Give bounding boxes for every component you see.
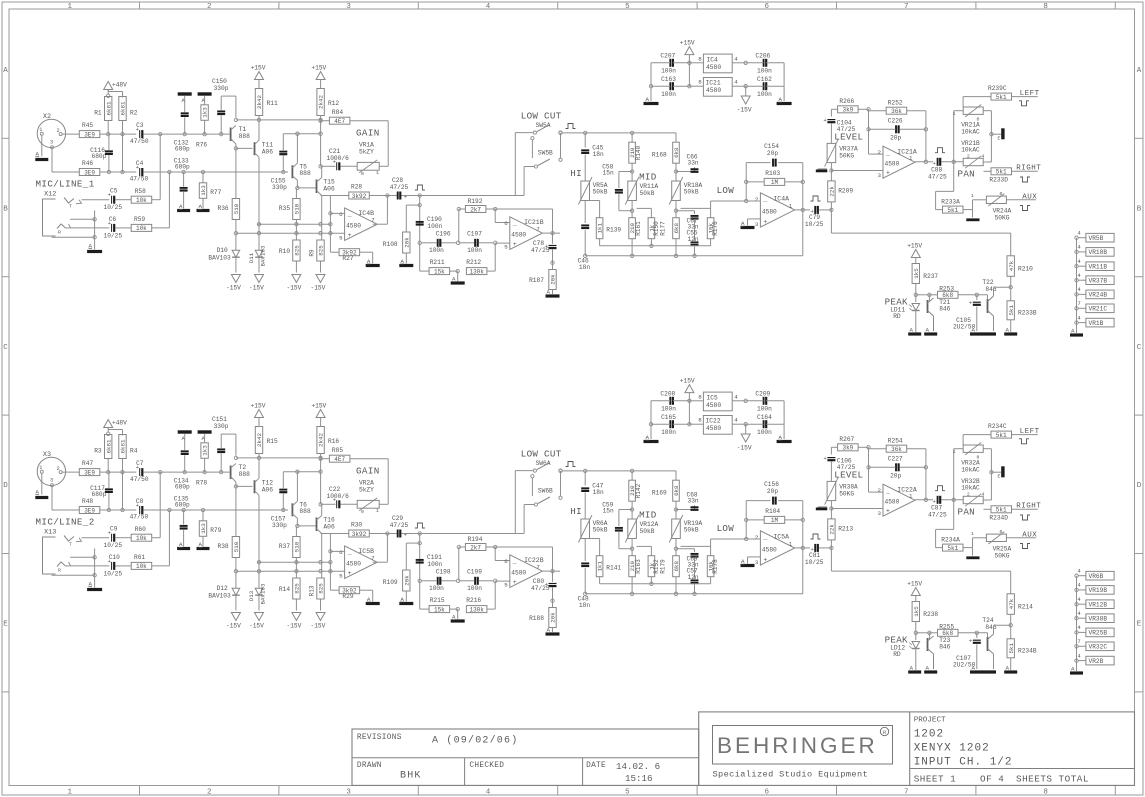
svg-text:4580: 4580 xyxy=(706,87,721,94)
svg-text:+: + xyxy=(348,570,352,577)
capacitor C46 18n xyxy=(581,224,589,226)
svg-text:HI: HI xyxy=(570,506,582,517)
svg-text:C: C xyxy=(3,344,8,352)
svg-text:IC21A: IC21A xyxy=(897,149,917,156)
svg-text:LOW: LOW xyxy=(717,523,735,534)
capacitor C9 10/25 xyxy=(111,534,113,542)
output riser xyxy=(925,111,927,162)
svg-text:2k7: 2k7 xyxy=(470,206,481,213)
wire MID pot bottom xyxy=(631,201,633,218)
IC21B output node xyxy=(542,570,560,572)
resistor R60 10k xyxy=(131,534,152,541)
ground right of supply xyxy=(783,86,785,101)
svg-text:+: + xyxy=(823,455,827,462)
svg-text:18n: 18n xyxy=(593,151,604,158)
T22 collector to mute node xyxy=(993,287,995,296)
wire R12 column down to C21 node xyxy=(320,472,322,505)
svg-text:5k1: 5k1 xyxy=(1008,305,1015,316)
svg-text:R: R xyxy=(58,568,61,574)
svg-text:VR12B: VR12B xyxy=(1089,602,1108,609)
svg-text:C80: C80 xyxy=(533,578,544,585)
svg-text:R12: R12 xyxy=(328,100,339,107)
svg-text:R239C: R239C xyxy=(988,85,1007,92)
svg-text:RIGHT: RIGHT xyxy=(1016,503,1041,511)
-15V under D11 xyxy=(255,613,264,621)
svg-text:7: 7 xyxy=(536,564,540,571)
wire R45 to node xyxy=(100,471,137,473)
svg-text:R139: R139 xyxy=(606,227,621,234)
wire C3 to T1 base xyxy=(144,471,230,473)
capacitor C29 47/25 xyxy=(397,530,399,538)
row ticks and letters left/right xyxy=(2,137,9,139)
wire riser to SW5A xyxy=(514,133,516,196)
wire C28 to filter node xyxy=(402,533,420,535)
pan right rail xyxy=(990,449,992,500)
svg-text:10k: 10k xyxy=(136,563,147,570)
wire jack tip to C5 xyxy=(82,537,110,539)
LOW wiper to R176 xyxy=(681,207,711,209)
svg-text:+: + xyxy=(969,300,973,307)
svg-text:R109: R109 xyxy=(383,579,398,586)
capacitor C107 2u2/50 xyxy=(976,633,978,638)
svg-text:2k42: 2k42 xyxy=(318,95,325,109)
svg-text:R1: R1 xyxy=(94,110,102,117)
svg-text:R179: R179 xyxy=(660,559,667,574)
svg-text:R9: R9 xyxy=(309,249,316,257)
svg-text:4580: 4580 xyxy=(346,223,361,230)
wire to IC21B pin5 xyxy=(495,242,510,244)
svg-text:33n: 33n xyxy=(688,498,699,505)
svg-text:R78: R78 xyxy=(196,480,207,487)
svg-text:C163: C163 xyxy=(661,76,676,83)
wire C6-R59 xyxy=(116,565,132,567)
svg-text:47/50: 47/50 xyxy=(130,514,149,521)
ground under LED xyxy=(908,670,921,673)
svg-text:R108: R108 xyxy=(383,241,398,248)
VR connector bus xyxy=(1076,576,1078,671)
wire C79 to level node xyxy=(819,547,831,549)
svg-text:47/50: 47/50 xyxy=(130,476,149,483)
svg-text:+15V: +15V xyxy=(311,65,326,72)
svg-text:R84: R84 xyxy=(332,109,343,116)
svg-text:R13: R13 xyxy=(309,585,316,596)
capacitor C132 680p xyxy=(181,112,189,114)
svg-text:4: 4 xyxy=(1078,625,1081,631)
svg-text:VR1A: VR1A xyxy=(359,142,374,149)
connector box VR19B pin 4 xyxy=(1075,588,1078,591)
svg-text:3: 3 xyxy=(878,172,882,179)
registered trademark symbol xyxy=(880,727,888,735)
svg-text:SW5B: SW5B xyxy=(538,150,553,157)
svg-text:4: 4 xyxy=(486,789,491,797)
resistor R108 20k xyxy=(403,232,410,253)
IC21A output xyxy=(915,161,933,163)
R28 row from T15 emitter xyxy=(321,195,349,197)
pan pot VR21A 10kAC xyxy=(963,107,983,114)
svg-text:IC4A: IC4A xyxy=(773,195,789,202)
svg-text:D12: D12 xyxy=(217,585,228,592)
EQ bottom bus to IC4A output riser xyxy=(585,593,803,595)
svg-text:510: 510 xyxy=(294,541,301,552)
svg-text:7: 7 xyxy=(371,555,375,562)
svg-text:1k5: 1k5 xyxy=(913,268,920,279)
svg-text:0: 0 xyxy=(361,509,364,515)
svg-text:R252: R252 xyxy=(888,100,903,107)
MID wiper to R150 xyxy=(637,545,652,547)
wire R176 to lower bus xyxy=(710,239,712,246)
capacitor C133 680p xyxy=(180,187,188,189)
svg-text:+: + xyxy=(823,117,827,124)
svg-text:R210: R210 xyxy=(1018,266,1033,273)
op-amp IC21A 4580 xyxy=(883,146,915,178)
svg-text:+48V: +48V xyxy=(112,420,127,427)
wire R162 to bottom bus xyxy=(675,239,677,256)
ground under C105 xyxy=(970,332,996,335)
capacitor C206 100n xyxy=(763,59,765,67)
svg-text:HI: HI xyxy=(570,168,582,179)
svg-text:4: 4 xyxy=(734,393,738,400)
capacitor C135 680p xyxy=(180,525,188,527)
resistor R234D 5k1 to RIGHT xyxy=(984,508,991,510)
svg-text:+: + xyxy=(404,194,407,201)
svg-text:10k: 10k xyxy=(136,225,147,232)
svg-text:6: 6 xyxy=(504,220,508,227)
svg-text:VR11B: VR11B xyxy=(1089,264,1108,271)
wire filter node to low-cut riser xyxy=(420,533,524,535)
svg-text:50kB: 50kB xyxy=(640,528,655,535)
svg-text:888: 888 xyxy=(299,170,311,177)
svg-text:330p: 330p xyxy=(214,85,229,92)
wire R36 bottom to bus xyxy=(235,220,237,234)
svg-text:888: 888 xyxy=(239,133,251,140)
wire R266 right to pin2 riser xyxy=(858,108,868,110)
wire R176 to lower bus xyxy=(710,577,712,584)
svg-text:4: 4 xyxy=(486,3,491,11)
svg-text:B: B xyxy=(1137,205,1142,213)
resistor R9 825 xyxy=(317,240,324,261)
svg-text:4: 4 xyxy=(1078,287,1081,293)
capacitor C45 18n xyxy=(584,133,586,148)
svg-text:+: + xyxy=(969,638,973,645)
wire C4 to T5 base xyxy=(144,171,289,173)
wire IC4B output up to R28 node xyxy=(373,561,388,563)
capacitor C3 47/50 xyxy=(139,130,141,138)
connector box VR2B pin 4 xyxy=(1075,659,1078,662)
svg-text:A: A xyxy=(1137,67,1142,75)
svg-text:5: 5 xyxy=(625,3,630,11)
svg-text:INPUT CH. 1/2: INPUT CH. 1/2 xyxy=(914,757,1013,769)
svg-text:6: 6 xyxy=(339,211,343,218)
svg-text:_: _ xyxy=(347,549,352,556)
diode D12 BAV103 xyxy=(235,571,237,588)
svg-text:+15V: +15V xyxy=(311,403,326,410)
wire IC4A output down to lower return bus xyxy=(802,548,804,594)
svg-text:3: 3 xyxy=(755,221,759,228)
ground at R27 xyxy=(372,590,374,601)
svg-text:R79: R79 xyxy=(210,527,221,534)
svg-text:846: 846 xyxy=(939,306,950,313)
svg-text:6k81: 6k81 xyxy=(105,439,112,453)
+15V supply for op-amps xyxy=(685,47,694,55)
diode D10 BAV103 xyxy=(235,233,237,250)
VR connector bus xyxy=(1076,238,1078,333)
svg-text:C: C xyxy=(1137,344,1142,352)
wire R233A to aux pot xyxy=(963,547,972,549)
svg-text:MIC/LINE_2: MIC/LINE_2 xyxy=(36,516,95,527)
capacitor C104 47/25 xyxy=(827,119,835,121)
title block outline xyxy=(699,712,1135,786)
ground under C133 xyxy=(177,209,190,212)
op-amp IC22A 4580 xyxy=(883,484,915,516)
resistor R163 210 xyxy=(629,556,636,577)
resistor R48 3E9 xyxy=(79,507,100,514)
IC IC22 4580 power pins xyxy=(703,416,732,435)
resistor R188 20k xyxy=(552,588,554,608)
wire jack sleeve to ground column xyxy=(52,236,95,238)
svg-text:50kB: 50kB xyxy=(684,189,699,196)
svg-text:5k1: 5k1 xyxy=(996,432,1007,439)
connector box VR21C pin 7 xyxy=(1075,307,1078,310)
svg-text:1: 1 xyxy=(789,202,793,209)
svg-text:-15V: -15V xyxy=(226,285,241,292)
svg-text:R233B: R233B xyxy=(1018,310,1037,317)
svg-text:22k: 22k xyxy=(829,524,836,535)
wire T5 collector up xyxy=(296,472,298,502)
connector box VR6B pin 4 xyxy=(1075,574,1078,577)
svg-text:B: B xyxy=(3,205,8,213)
svg-text:R140: R140 xyxy=(635,145,642,160)
op-amp IC21B 4580 xyxy=(510,217,543,250)
LEVEL pot VR37A 50KG xyxy=(830,124,832,144)
svg-text:6: 6 xyxy=(504,558,508,565)
resistor R237 1k5 xyxy=(915,258,917,264)
wire R46 to C4 xyxy=(100,171,137,173)
svg-text:-15V: -15V xyxy=(737,445,752,452)
resistor R150 1k xyxy=(648,218,655,239)
svg-text:R27: R27 xyxy=(342,255,353,262)
+48V phantom supply xyxy=(104,420,113,428)
svg-text:5: 5 xyxy=(339,573,343,580)
svg-text:PAN: PAN xyxy=(958,507,975,518)
svg-text:X12: X12 xyxy=(44,190,56,198)
svg-text:5: 5 xyxy=(504,581,508,588)
+15V for peak detector xyxy=(911,250,920,258)
jack ground xyxy=(94,237,96,249)
ground under VR stack xyxy=(1070,671,1083,674)
wire C5-R58 xyxy=(116,199,132,201)
svg-text:R104: R104 xyxy=(765,508,780,515)
aux feed wire xyxy=(953,500,955,530)
svg-text:C206: C206 xyxy=(755,53,770,60)
resistor R38 510 xyxy=(232,537,239,558)
svg-text:5kZY: 5kZY xyxy=(359,487,374,494)
svg-text:4: 4 xyxy=(734,79,738,86)
aux pot ground xyxy=(972,548,974,556)
svg-text:C7: C7 xyxy=(136,460,144,467)
+15V for R12 xyxy=(316,410,325,418)
resistor R162 6k8 xyxy=(673,218,680,239)
wire EQ to IC4A pin2 xyxy=(711,200,747,202)
resistor R84 4E7 xyxy=(329,117,350,124)
resistor R78 1k3 xyxy=(201,443,208,459)
svg-text:R47: R47 xyxy=(82,460,93,467)
resistor R254 36k xyxy=(886,445,907,452)
svg-text:R4: R4 xyxy=(130,448,138,455)
capacitor C48 18n xyxy=(581,562,589,564)
svg-text:888: 888 xyxy=(299,508,311,515)
svg-text:X13: X13 xyxy=(44,528,56,536)
svg-text:330p: 330p xyxy=(272,184,287,191)
capacitor C21 1000/6 xyxy=(336,162,338,170)
wire R28 to C28 node xyxy=(369,533,397,535)
ground at XLR xyxy=(35,158,48,161)
R28 row from T15 emitter xyxy=(321,533,349,535)
svg-text:IC22B: IC22B xyxy=(524,557,544,564)
wire filter node to low-cut riser xyxy=(420,195,524,197)
svg-text:5k1: 5k1 xyxy=(996,169,1007,176)
svg-text:20k: 20k xyxy=(550,274,557,285)
-15V under D10 xyxy=(231,275,240,283)
connector box VR32C pin 7 xyxy=(1075,645,1078,648)
wire R140 to MID pot xyxy=(631,163,633,181)
svg-text:C209: C209 xyxy=(755,391,770,398)
svg-text:R254: R254 xyxy=(888,438,903,445)
wire LOW pot bottom xyxy=(675,201,677,218)
svg-text:A06: A06 xyxy=(262,148,274,155)
svg-text:0: 0 xyxy=(361,171,364,177)
ground left of supply xyxy=(650,86,652,101)
svg-text:4: 4 xyxy=(1078,231,1081,237)
wire C79 to level node xyxy=(819,209,831,211)
svg-text:+: + xyxy=(348,232,352,239)
svg-text:6k8: 6k8 xyxy=(673,485,680,496)
svg-text:680p: 680p xyxy=(175,164,190,171)
capacitor C208 100n xyxy=(669,397,671,405)
svg-text:R15: R15 xyxy=(267,438,278,445)
svg-text:R61: R61 xyxy=(134,554,145,561)
svg-text:47/25: 47/25 xyxy=(928,173,947,180)
svg-text:130k: 130k xyxy=(469,606,484,613)
wire R58 riser to mic hot node xyxy=(152,537,160,539)
wire T15 emitter column xyxy=(321,196,323,241)
pulse symbol at C79 xyxy=(811,534,821,539)
svg-text:+: + xyxy=(763,557,767,564)
pan center tap to ground bar xyxy=(991,471,1001,473)
svg-text:_: _ xyxy=(885,487,890,494)
svg-text:12n: 12n xyxy=(688,574,699,581)
wire pin6 riser xyxy=(494,209,496,223)
HI pot VR6A 50kB xyxy=(584,493,586,520)
svg-text:R176: R176 xyxy=(712,221,719,236)
svg-text:3E9: 3E9 xyxy=(84,469,95,476)
LED LD12 xyxy=(912,642,920,649)
svg-text:MID: MID xyxy=(639,510,657,521)
wire R139 to lower bus xyxy=(599,577,601,584)
wire R150 to lower bus xyxy=(650,577,652,584)
svg-text:R59: R59 xyxy=(134,216,145,223)
resistor R209 22k xyxy=(828,181,835,202)
wire T11 collector to rail xyxy=(258,458,260,478)
wire gain pot to R84 riser xyxy=(379,503,388,505)
svg-text:3E9: 3E9 xyxy=(84,169,95,176)
svg-text:4580: 4580 xyxy=(511,570,526,577)
svg-text:8: 8 xyxy=(1043,3,1048,11)
resistor R61 10k xyxy=(131,562,152,569)
svg-text:+15V: +15V xyxy=(680,40,695,47)
svg-text:VR2B: VR2B xyxy=(1089,658,1104,665)
wire R266 left elbow down xyxy=(831,108,837,110)
wire R192 right riser to output xyxy=(486,546,553,548)
wire pin3 row to R46 xyxy=(52,509,80,511)
svg-text:R29: R29 xyxy=(342,593,353,600)
svg-text:100n: 100n xyxy=(661,406,676,413)
svg-text:2: 2 xyxy=(967,492,970,498)
wire HI pot to C46 xyxy=(584,539,586,562)
wire C3 to T1 base xyxy=(144,133,230,135)
svg-text:1: 1 xyxy=(789,541,793,548)
output riser xyxy=(925,449,927,500)
resistor R30 3k92 xyxy=(349,530,370,537)
bus wire lower (to IC4B pin5) xyxy=(236,570,345,572)
supply right rail xyxy=(783,401,785,424)
svg-text:R14: R14 xyxy=(279,586,290,593)
wire switch output to EQ bus xyxy=(562,470,585,472)
resistor R192 2k7 xyxy=(465,206,486,213)
ground under T21 xyxy=(933,654,935,669)
ground at pin3 xyxy=(748,556,761,558)
svg-text:5: 5 xyxy=(339,235,343,242)
capacitor C164 100n xyxy=(763,420,765,428)
svg-text:2: 2 xyxy=(207,789,212,797)
capacitor C163 100n xyxy=(669,82,671,90)
svg-text:20p: 20p xyxy=(767,488,778,495)
svg-text:4: 4 xyxy=(982,492,985,498)
svg-text:D10: D10 xyxy=(217,247,228,254)
transistor T5 888 xyxy=(291,165,293,178)
-15V under R9 xyxy=(316,613,325,621)
svg-text:680p: 680p xyxy=(175,145,190,152)
svg-text:50KG: 50KG xyxy=(839,491,854,498)
wire pin2 from EQ xyxy=(745,182,747,201)
transistor T12 A06 xyxy=(254,480,256,493)
resistor R239C 5k1 to LEFT xyxy=(962,97,964,107)
wire pot bottom to node xyxy=(830,163,832,181)
svg-text:BEHRINGER: BEHRINGER xyxy=(717,733,878,758)
T22 collector to mute node xyxy=(993,625,995,634)
wire node to IC21A pin3 xyxy=(831,508,883,510)
svg-text:SW6B: SW6B xyxy=(538,488,553,495)
svg-text:1000/6: 1000/6 xyxy=(327,155,350,162)
svg-text:C197: C197 xyxy=(467,231,482,238)
EQ bottom bus to IC4A output riser xyxy=(585,255,803,257)
T22 emitter ground xyxy=(993,654,995,669)
MID pot VR12A 50kB xyxy=(628,519,637,539)
svg-text:RD: RD xyxy=(893,651,901,658)
wire R192 left riser xyxy=(459,546,466,548)
svg-text:4580: 4580 xyxy=(762,208,777,215)
svg-text:10/25: 10/25 xyxy=(104,571,123,578)
svg-text:VR18B: VR18B xyxy=(1089,249,1108,256)
svg-text:100n: 100n xyxy=(467,585,482,592)
T5 collector link wire xyxy=(283,471,320,473)
svg-text:LEFT: LEFT xyxy=(1020,428,1040,436)
wire R108 top xyxy=(405,205,407,232)
svg-text:2: 2 xyxy=(57,466,60,472)
AGND flag over R76 xyxy=(198,92,212,95)
svg-text:825: 825 xyxy=(318,245,325,256)
svg-text:A06: A06 xyxy=(323,185,335,192)
pulse symbol at C79 xyxy=(811,196,821,201)
